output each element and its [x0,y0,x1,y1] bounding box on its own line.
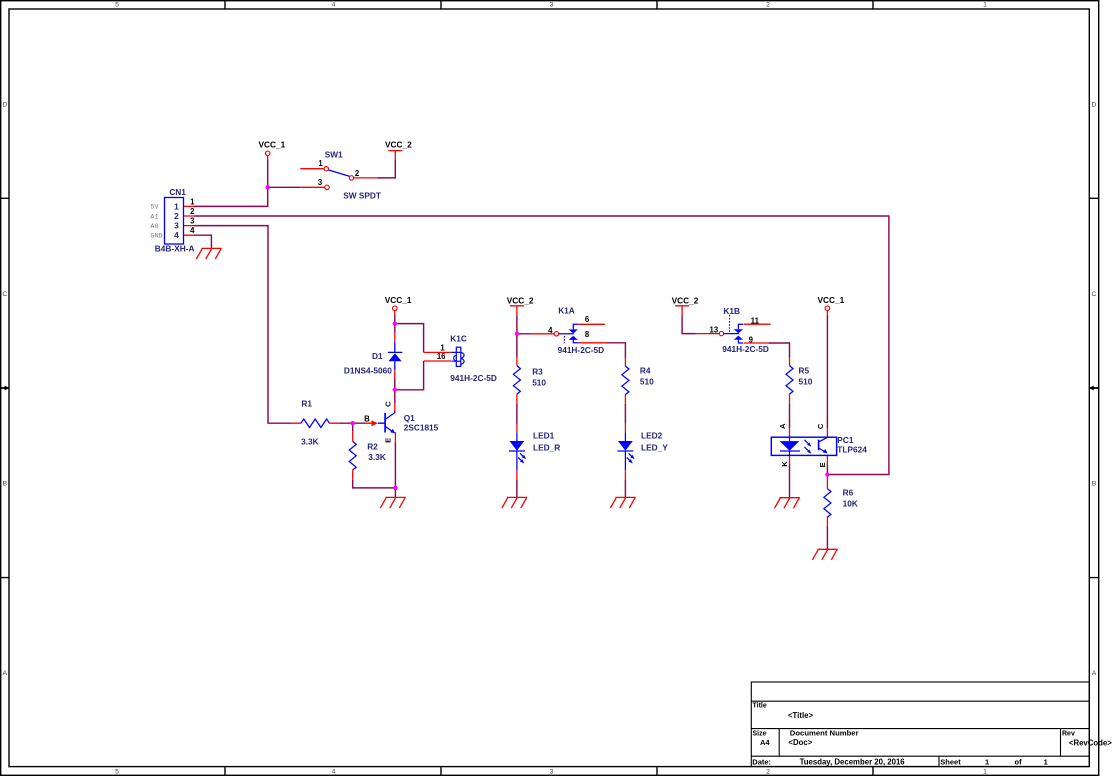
svg-text:1: 1 [190,197,195,206]
svg-text:K: K [780,461,789,467]
svg-text:K1C: K1C [450,334,467,344]
svg-text:C: C [384,401,393,407]
svg-text:1: 1 [318,159,323,168]
svg-text:R4: R4 [640,366,651,376]
svg-text:VCC_1: VCC_1 [385,295,412,305]
svg-text:E: E [384,438,393,443]
svg-text:A1: A1 [150,213,158,221]
svg-text:B: B [364,414,370,423]
svg-text:<RevCode>: <RevCode> [1069,738,1112,747]
svg-text:A: A [778,423,787,429]
svg-text:510: 510 [799,376,813,386]
svg-text:10K: 10K [843,498,858,508]
svg-text:3.3K: 3.3K [368,452,386,462]
svg-text:Date:: Date: [752,757,771,766]
svg-text:2: 2 [355,169,360,178]
svg-text:Title: Title [753,703,767,710]
svg-text:4: 4 [332,768,336,775]
svg-text:R2: R2 [367,442,378,452]
svg-text:Tuesday, December 20, 2016: Tuesday, December 20, 2016 [800,758,906,767]
svg-text:D1NS4-5060: D1NS4-5060 [344,366,392,376]
svg-text:941H-2C-5D: 941H-2C-5D [722,344,769,354]
svg-text:D1: D1 [372,351,383,361]
svg-text:TLP624: TLP624 [837,444,867,454]
svg-text:16: 16 [437,352,446,361]
svg-text:<Title>: <Title> [788,711,813,720]
svg-text:3: 3 [550,2,554,9]
svg-text:of: of [1015,757,1023,766]
svg-text:3: 3 [190,217,195,226]
svg-text:B4B-XH-A: B4B-XH-A [155,244,195,254]
svg-text:941H-2C-5D: 941H-2C-5D [450,373,497,383]
svg-text:1: 1 [983,2,987,9]
svg-text:5: 5 [115,2,119,9]
svg-text:2: 2 [190,207,195,216]
svg-text:LED2: LED2 [641,431,663,441]
svg-text:11: 11 [751,316,760,325]
svg-text:VCC_2: VCC_2 [385,140,412,150]
svg-text:4: 4 [190,226,195,235]
svg-text:2: 2 [174,211,179,221]
svg-text:2: 2 [766,768,770,775]
svg-text:D: D [2,102,7,109]
svg-text:6: 6 [585,315,590,324]
svg-text:Sheet: Sheet [940,757,961,766]
svg-text:K1B: K1B [723,306,740,316]
svg-text:2: 2 [766,2,770,9]
svg-text:<Doc>: <Doc> [788,738,812,747]
svg-text:3.3K: 3.3K [301,436,319,446]
svg-text:13: 13 [710,326,719,335]
svg-text:D: D [1092,102,1097,109]
svg-text:5: 5 [115,768,119,775]
svg-text:3: 3 [174,221,179,231]
svg-text:B: B [3,481,8,488]
svg-text:3: 3 [318,178,323,187]
svg-text:LED_R: LED_R [533,442,560,452]
svg-text:1: 1 [440,343,445,352]
svg-text:A: A [3,670,8,677]
svg-text:A: A [1092,670,1097,677]
svg-text:VCC_2: VCC_2 [672,295,699,305]
svg-text:4: 4 [548,326,553,335]
svg-text:R6: R6 [843,488,854,498]
svg-text:510: 510 [532,377,546,387]
svg-text:C: C [816,423,825,429]
svg-text:CN1: CN1 [169,187,186,197]
svg-text:941H-2C-5D: 941H-2C-5D [558,345,605,355]
svg-text:E: E [818,462,827,467]
svg-text:3: 3 [550,768,554,775]
svg-text:9: 9 [749,335,754,344]
svg-text:4: 4 [174,230,179,240]
svg-text:VCC_1: VCC_1 [259,140,286,150]
svg-text:C: C [1092,291,1097,298]
svg-text:1: 1 [983,768,987,775]
svg-text:R5: R5 [799,366,810,376]
svg-text:1: 1 [174,201,179,211]
svg-text:K1A: K1A [558,306,575,316]
svg-text:5V: 5V [150,204,159,212]
svg-text:1: 1 [1044,757,1048,766]
svg-text:A4: A4 [760,738,770,747]
svg-text:8: 8 [585,330,590,339]
svg-text:Size: Size [753,730,767,737]
svg-text:A0: A0 [150,223,158,231]
svg-text:510: 510 [640,376,654,386]
svg-text:2SC1815: 2SC1815 [404,423,439,433]
svg-text:VCC_2: VCC_2 [507,295,534,305]
svg-text:B: B [1092,481,1097,488]
svg-text:4: 4 [332,2,336,9]
svg-text:R1: R1 [301,399,312,409]
svg-text:SW SPDT: SW SPDT [343,191,381,201]
svg-text:1: 1 [985,757,989,766]
svg-text:LED1: LED1 [533,431,555,441]
svg-text:GND: GND [150,233,162,241]
svg-text:LED_Y: LED_Y [641,442,668,452]
svg-text:C: C [2,291,7,298]
svg-text:Rev: Rev [1062,730,1075,737]
svg-text:VCC_1: VCC_1 [818,295,845,305]
svg-text:R3: R3 [532,366,543,376]
svg-text:SW1: SW1 [325,149,343,159]
svg-text:Document Number: Document Number [790,728,859,737]
